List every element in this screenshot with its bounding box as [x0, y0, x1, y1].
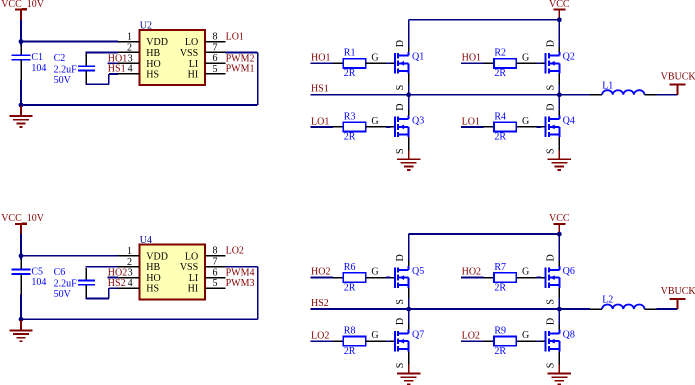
svg-text:Q8: Q8 — [563, 330, 575, 341]
svg-text:S: S — [395, 85, 406, 91]
node junction VCC rail — [557, 232, 562, 237]
svg-text:C5: C5 — [31, 267, 43, 278]
wire LO2 to resistor R8 — [311, 340, 344, 342]
svg-text:Q6: Q6 — [563, 266, 575, 277]
ground GND under Q8 — [548, 365, 571, 385]
svg-text:LO1: LO1 — [311, 116, 329, 127]
svg-text:R4: R4 — [494, 111, 506, 122]
svg-text:HS1: HS1 — [108, 64, 126, 75]
svg-text:2R: 2R — [344, 68, 356, 79]
net label PWM1 (pin 5) — [226, 64, 255, 75]
resistor R4 2R — [494, 111, 516, 142]
wire Cb bottom plate to U pin 4 (HS) — [85, 288, 118, 298]
svg-text:R2: R2 — [494, 48, 506, 59]
svg-text:D: D — [395, 318, 406, 325]
capacitor C1 104 — [12, 45, 47, 80]
resistor R1 2R — [343, 48, 365, 79]
svg-text:1: 1 — [127, 246, 132, 257]
wire HS1 phase rail — [311, 94, 590, 96]
resistor R3 2R — [343, 111, 365, 142]
svg-text:LO2: LO2 — [226, 246, 244, 257]
net label HO1 (gate of Q2) — [462, 52, 481, 63]
svg-text:G: G — [371, 267, 378, 278]
svg-text:G: G — [371, 52, 378, 63]
wire drain of Q7 — [395, 309, 409, 330]
power port VCC — [549, 0, 570, 20]
IC U2 half-bridge gate driver — [118, 21, 225, 85]
svg-text:G: G — [371, 116, 378, 127]
svg-text:Q5: Q5 — [412, 266, 424, 277]
net label PWM4 (pin 6) — [226, 268, 255, 279]
capacitor C6 2.2uF 50V — [54, 267, 95, 300]
net label HS2 (phase rail) — [311, 298, 329, 309]
svg-text:Q3: Q3 — [412, 115, 424, 126]
net label HO2 (gate of Q5) — [311, 267, 330, 278]
svg-text:5: 5 — [213, 64, 218, 75]
net label HO2 (gate of Q6) — [462, 267, 481, 278]
wire R7 to gate of Q6 — [516, 267, 546, 278]
svg-text:S: S — [395, 148, 406, 154]
capacitor C5 104 — [12, 259, 47, 294]
ground GND under Q3 — [397, 150, 420, 170]
svg-text:HB: HB — [146, 48, 160, 59]
svg-text:R8: R8 — [344, 326, 356, 337]
wire HO1 to resistor R1 — [311, 62, 344, 64]
wire Cb bottom plate to U pin 4 (HS) — [85, 74, 118, 84]
svg-text:8: 8 — [213, 31, 218, 42]
svg-text:2.2uF: 2.2uF — [54, 64, 78, 75]
svg-text:Q1: Q1 — [412, 52, 424, 63]
svg-text:D: D — [545, 318, 556, 325]
svg-text:VBUCK: VBUCK — [661, 286, 695, 297]
svg-text:2R: 2R — [344, 282, 356, 293]
resistor R6 2R — [343, 262, 365, 293]
wire source of Q6 to phase rail — [545, 288, 559, 309]
wire R8 to gate of Q7 — [366, 330, 396, 341]
svg-text:C1: C1 — [31, 52, 43, 63]
node junction phase rail Q upper-left — [406, 307, 411, 312]
svg-text:VDD: VDD — [146, 37, 168, 48]
svg-text:HS1: HS1 — [311, 84, 329, 95]
svg-text:U2: U2 — [140, 21, 152, 32]
wire source of Q5 to phase rail — [395, 288, 409, 309]
wire R9 to gate of Q8 — [516, 330, 546, 341]
svg-text:D: D — [545, 104, 556, 111]
svg-text:5: 5 — [213, 278, 218, 289]
net label LO2 (gate of Q8) — [462, 331, 480, 342]
svg-text:8: 8 — [213, 246, 218, 257]
svg-text:R9: R9 — [494, 326, 506, 337]
svg-text:2R: 2R — [344, 346, 356, 357]
svg-text:Q4: Q4 — [563, 115, 575, 126]
svg-text:VSS: VSS — [180, 262, 198, 273]
node junction VCC_10V / C1 / U pin1 — [19, 39, 24, 44]
wire U pin 7 (VSS) to ground rail — [21, 52, 258, 105]
svg-text:C2: C2 — [54, 53, 66, 64]
wire R2 to gate of Q2 — [516, 52, 546, 63]
svg-text:S: S — [545, 363, 556, 369]
transistor Q3 (N-MOSFET) — [395, 115, 424, 137]
svg-text:1: 1 — [127, 32, 132, 43]
svg-text:D: D — [545, 254, 556, 261]
power port VCC — [549, 213, 570, 234]
svg-text:2R: 2R — [494, 346, 506, 357]
wire Cb top plate to U pin 2 (HB) — [85, 52, 118, 53]
svg-text:L2: L2 — [602, 295, 613, 306]
power port VCC_10V (net VCC_10V) — [1, 0, 45, 20]
svg-text:LO2: LO2 — [462, 331, 480, 342]
power port VCC_10V (net VCC_10V) — [1, 213, 45, 234]
wire R4 to gate of Q4 — [516, 116, 546, 127]
transistor Q4 (N-MOSFET) — [546, 115, 575, 137]
svg-text:HO: HO — [146, 59, 160, 70]
svg-text:7: 7 — [213, 257, 218, 268]
svg-text:R6: R6 — [344, 262, 356, 273]
inductor L1 — [590, 80, 657, 95]
net label HS2 / pin number 4 — [108, 278, 133, 289]
svg-text:2.2uF: 2.2uF — [54, 279, 78, 290]
transistor Q1 (N-MOSFET) — [395, 52, 424, 74]
wire inductor to VBUCK — [657, 308, 678, 310]
svg-text:D: D — [395, 40, 406, 47]
wire R1 to gate of Q1 — [366, 52, 396, 63]
svg-text:G: G — [522, 116, 529, 127]
wire R6 to gate of Q5 — [366, 267, 396, 278]
power port VBUCK — [661, 72, 695, 95]
wire LO2 to resistor R9 — [461, 340, 494, 342]
svg-text:2R: 2R — [494, 282, 506, 293]
svg-text:50V: 50V — [54, 289, 72, 300]
transistor Q7 (N-MOSFET) — [395, 330, 424, 352]
svg-text:LI: LI — [189, 59, 198, 70]
svg-text:VDD: VDD — [146, 251, 168, 262]
svg-text:VCC: VCC — [549, 213, 570, 224]
net label LO2 (gate of Q7) — [311, 331, 329, 342]
node junction ground rail / Ca — [19, 103, 24, 108]
svg-text:HI: HI — [188, 284, 199, 295]
net label PWM3 (pin 5) — [226, 278, 255, 289]
wire drain of Q8 — [545, 309, 559, 330]
wire U pin 7 (VSS) to ground rail — [21, 267, 258, 320]
resistor R7 2R — [494, 262, 516, 293]
wire source of Q2 to phase rail — [545, 74, 559, 95]
wire HS2 phase rail — [311, 308, 590, 310]
net label LO1 (gate of Q4) — [462, 116, 480, 127]
wire source of Q4 to ground — [545, 137, 559, 154]
svg-text:VCC: VCC — [549, 0, 570, 10]
wire drain of Q3 — [395, 95, 409, 116]
resistor R2 2R — [494, 48, 516, 79]
wire drain of Q5 — [395, 234, 409, 266]
svg-text:LO: LO — [185, 251, 198, 262]
svg-text:U4: U4 — [140, 235, 152, 246]
inductor L2 — [590, 295, 657, 310]
svg-text:R1: R1 — [344, 48, 356, 59]
svg-text:4: 4 — [128, 278, 133, 289]
svg-text:104: 104 — [31, 63, 46, 74]
wire drain of Q4 — [545, 95, 559, 116]
wire inductor to VBUCK — [657, 94, 678, 96]
svg-text:L1: L1 — [602, 80, 613, 91]
svg-text:Q2: Q2 — [563, 52, 575, 63]
wire source of Q3 to ground — [395, 137, 409, 154]
svg-text:6: 6 — [213, 53, 218, 64]
wire drain of Q1 — [395, 20, 409, 52]
svg-text:VCC_10V: VCC_10V — [1, 213, 45, 224]
svg-text:50V: 50V — [54, 75, 72, 86]
wire HO2 to resistor R7 — [461, 277, 494, 279]
net label HS1 (phase rail) — [311, 84, 329, 95]
svg-text:LI: LI — [189, 273, 198, 284]
net label HO1 (gate of Q1) — [311, 52, 330, 63]
svg-text:HS: HS — [146, 284, 159, 295]
node junction phase rail Q upper-left — [406, 92, 411, 97]
svg-text:LO1: LO1 — [462, 116, 480, 127]
svg-text:VSS: VSS — [180, 48, 198, 59]
svg-text:LO: LO — [185, 37, 198, 48]
wire U pin 3 (HO) net HO2 — [107, 277, 118, 279]
wire VCC_10V to U pin 1 — [21, 255, 118, 257]
svg-text:C6: C6 — [54, 267, 66, 278]
net label HS1 / pin number 4 — [108, 64, 133, 75]
svg-text:G: G — [522, 52, 529, 63]
svg-text:R3: R3 — [344, 111, 356, 122]
transistor Q8 (N-MOSFET) — [546, 330, 575, 352]
svg-text:LO1: LO1 — [226, 31, 244, 42]
svg-text:G: G — [371, 330, 378, 341]
svg-text:D: D — [395, 254, 406, 261]
svg-text:HB: HB — [146, 262, 160, 273]
wire U pin 3 (HO) net HO1 — [107, 62, 118, 64]
svg-text:S: S — [395, 363, 406, 369]
capacitor C2 2.2uF 50V — [54, 53, 95, 86]
svg-text:VCC_10V: VCC_10V — [1, 0, 45, 10]
wire VCC_10V to U pin 1 — [21, 41, 118, 43]
ground GND under Q4 — [548, 150, 571, 170]
IC U4 half-bridge gate driver — [118, 235, 225, 299]
wire source of Q7 to ground — [395, 351, 409, 368]
net label LO1 (gate of Q3) — [311, 116, 329, 127]
svg-text:PWM1: PWM1 — [226, 64, 255, 75]
svg-text:2R: 2R — [494, 132, 506, 143]
node junction phase rail Q upper-right — [557, 92, 562, 97]
net label LO2 (pin 8) — [226, 246, 244, 257]
wire R3 to gate of Q3 — [366, 116, 396, 127]
resistor R8 2R — [343, 326, 365, 357]
svg-text:HS: HS — [146, 69, 159, 80]
svg-text:HO2: HO2 — [462, 267, 481, 278]
node junction VCC rail — [557, 17, 562, 22]
wire source of Q1 to phase rail — [395, 74, 409, 95]
wire HO1 to resistor R2 — [461, 62, 494, 64]
wire HO2 to resistor R6 — [311, 277, 344, 279]
wire VCC top rail — [409, 19, 560, 21]
wire drain of Q6 — [545, 234, 559, 266]
net label PWM2 (pin 6) — [226, 53, 255, 64]
wire VCC top rail — [409, 233, 560, 235]
net label LO1 (pin 8) — [226, 31, 244, 42]
svg-text:HO2: HO2 — [311, 267, 330, 278]
transistor Q2 (N-MOSFET) — [546, 52, 575, 74]
transistor Q5 (N-MOSFET) — [395, 266, 424, 288]
wire VCC_10V vertical left rail — [20, 20, 22, 105]
ground GND under Q7 — [397, 365, 420, 385]
ground GND (left) — [9, 106, 32, 127]
svg-text:HO1: HO1 — [311, 52, 330, 63]
svg-text:2: 2 — [127, 43, 132, 54]
svg-text:G: G — [522, 330, 529, 341]
svg-text:HI: HI — [188, 69, 199, 80]
net label HO1 / pin number 3 — [108, 53, 133, 64]
svg-text:7: 7 — [213, 42, 218, 53]
wire LO1 to resistor R3 — [311, 126, 344, 128]
svg-text:2R: 2R — [494, 68, 506, 79]
svg-text:D: D — [395, 104, 406, 111]
svg-text:2R: 2R — [344, 132, 356, 143]
node junction VCC_10V / C5 / U pin1 — [19, 253, 24, 258]
svg-text:S: S — [545, 148, 556, 154]
svg-text:PWM3: PWM3 — [226, 278, 255, 289]
svg-text:LO2: LO2 — [311, 331, 329, 342]
wire source of Q8 to ground — [545, 351, 559, 368]
svg-text:Q7: Q7 — [412, 330, 424, 341]
svg-text:G: G — [522, 267, 529, 278]
svg-text:R7: R7 — [494, 262, 506, 273]
resistor R9 2R — [494, 326, 516, 357]
net label HO2 / pin number 3 — [108, 268, 133, 279]
svg-text:104: 104 — [31, 277, 46, 288]
power port VBUCK — [661, 286, 695, 309]
wire LO1 to resistor R4 — [461, 126, 494, 128]
svg-text:HS2: HS2 — [311, 298, 329, 309]
svg-text:HS2: HS2 — [108, 278, 126, 289]
svg-text:6: 6 — [213, 268, 218, 279]
svg-text:HO: HO — [146, 273, 160, 284]
node junction ground rail / Ca — [19, 317, 24, 322]
transistor Q6 (N-MOSFET) — [546, 266, 575, 288]
ground GND (left) — [9, 320, 32, 341]
svg-text:S: S — [395, 299, 406, 305]
wire VCC_10V vertical left rail — [20, 234, 22, 319]
svg-text:VBUCK: VBUCK — [661, 72, 695, 83]
svg-text:D: D — [545, 40, 556, 47]
svg-text:4: 4 — [128, 64, 133, 75]
svg-text:S: S — [545, 299, 556, 305]
wire Cb top plate to U pin 2 (HB) — [85, 267, 118, 268]
svg-text:2: 2 — [127, 257, 132, 268]
node junction phase rail Q upper-right — [557, 307, 562, 312]
svg-text:HO1: HO1 — [462, 52, 481, 63]
wire drain of Q2 — [545, 20, 559, 52]
svg-text:S: S — [545, 85, 556, 91]
